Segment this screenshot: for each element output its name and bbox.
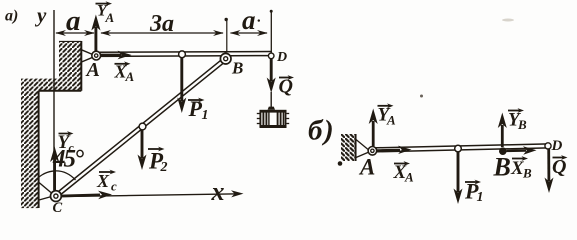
force X_C <box>62 191 113 200</box>
label Y_A <box>96 1 115 25</box>
weight block <box>257 110 289 128</box>
wall at A (fig b) <box>341 134 356 161</box>
svg-text:A: A <box>404 170 414 185</box>
svg-text:3a: 3a <box>149 11 174 37</box>
svg-text:Q: Q <box>279 76 293 98</box>
knot circle on beam (fig b P1) <box>455 145 462 152</box>
svg-text:X: X <box>96 171 110 191</box>
bracket at C <box>39 183 52 201</box>
beam AD <box>96 52 272 57</box>
force X_A <box>101 51 132 60</box>
wall upper block <box>59 41 82 91</box>
label P_1 <box>188 96 209 123</box>
speck after a <box>258 19 260 21</box>
hinge A (fig b) <box>368 147 377 156</box>
label Y_A (fig b) <box>378 103 397 127</box>
hinge C <box>51 191 62 202</box>
stray speck <box>420 95 423 98</box>
faint speck top <box>502 19 514 22</box>
svg-text:B: B <box>517 117 527 132</box>
label Q (fig b) <box>552 155 568 178</box>
svg-text:a): a) <box>5 8 18 25</box>
label X_B (fig b) <box>510 156 532 180</box>
svg-text:D: D <box>276 50 287 65</box>
node D circle (fig b) <box>545 143 551 149</box>
svg-text:A: A <box>85 59 100 81</box>
svg-text:a: a <box>66 5 81 37</box>
weight hanger line <box>270 92 272 107</box>
beam AD (fig b) <box>373 144 550 152</box>
label P_1 (fig b) <box>464 179 484 206</box>
svg-text:B: B <box>231 59 243 78</box>
extension line at D <box>270 10 273 53</box>
force X_B (fig b) <box>507 146 537 154</box>
svg-text:A: A <box>125 69 135 84</box>
svg-text:C: C <box>53 200 63 216</box>
y axis <box>53 10 55 192</box>
knot circle on beam (P1) <box>179 51 186 58</box>
force Y_C <box>50 147 59 191</box>
svg-text:2: 2 <box>160 160 168 175</box>
angle arc 45 <box>35 171 76 182</box>
weight knob <box>268 107 275 110</box>
label Q <box>279 75 295 97</box>
label P_2 <box>148 147 168 175</box>
bracket at A <box>82 50 94 62</box>
label X_C <box>96 170 117 194</box>
hinge A <box>92 51 101 60</box>
wall lower strip <box>21 91 39 209</box>
label Y_B (fig b) <box>508 108 527 132</box>
svg-text:x: x <box>211 177 225 206</box>
force P1 (fig b) <box>454 152 463 204</box>
svg-text:Q: Q <box>552 156 566 178</box>
bracket at A (fig b) <box>356 140 369 158</box>
wall step band <box>21 79 81 91</box>
force Q (fig b) <box>545 149 554 193</box>
dimension tick at B <box>225 18 228 52</box>
svg-text:1: 1 <box>202 108 209 123</box>
svg-text:A: A <box>105 10 115 25</box>
label X_A (fig b) <box>393 161 415 184</box>
force P2 <box>138 130 147 170</box>
force Y_A <box>91 15 100 52</box>
svg-text:B: B <box>522 166 532 181</box>
svg-text:A: A <box>358 155 375 180</box>
svg-text:45°: 45° <box>52 146 84 173</box>
knot circle on bar (P2) <box>139 123 146 130</box>
force Q <box>267 59 276 93</box>
svg-text:P: P <box>188 96 203 121</box>
speck dot near wall <box>338 161 343 166</box>
svg-text:1: 1 <box>477 190 484 205</box>
force Y_B (fig b) <box>498 113 507 148</box>
node D circle <box>268 53 274 59</box>
force P1 <box>177 58 186 113</box>
force X_A (fig b) <box>377 146 412 154</box>
svg-text:B: B <box>493 153 511 182</box>
dimension a (left) <box>55 30 95 36</box>
hinge B <box>220 53 231 64</box>
dimension 3a <box>100 30 224 36</box>
node B dot (fig b) <box>499 147 507 155</box>
label X_A <box>114 61 135 84</box>
svg-text:a: a <box>242 5 256 35</box>
svg-text:б): б) <box>308 115 335 147</box>
x axis <box>60 190 244 197</box>
svg-text:c: c <box>111 179 117 194</box>
label Y_C <box>58 131 75 154</box>
dimension a (right) <box>230 30 268 36</box>
svg-text:D: D <box>551 138 563 154</box>
force Y_A (fig b) <box>369 109 378 147</box>
bar CB (diagonal rod) <box>55 57 227 197</box>
svg-text:A: A <box>386 113 396 128</box>
